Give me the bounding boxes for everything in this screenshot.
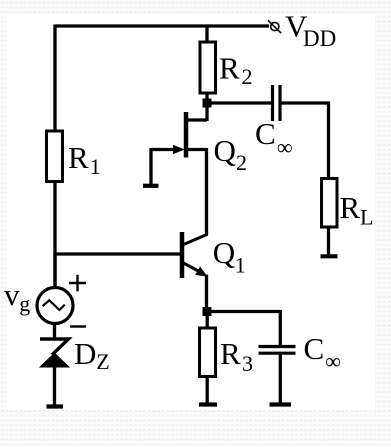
wire top rail [55,24,269,27]
svg-text:C: C [304,331,325,366]
wire Q2 drain bend [188,118,207,121]
wire left rail upper [53,25,56,132]
wire emitter junction right [207,310,281,313]
svg-text:DD: DD [303,26,336,51]
svg-text:2: 2 [236,150,247,175]
minus sign [70,325,86,327]
wire base wire [55,252,181,255]
node junction below R2 [203,99,212,108]
svg-text:1: 1 [235,252,246,277]
capacitor C-inf top (plates) [273,85,281,121]
ground (below R3) [199,402,217,406]
VDD terminal [268,20,281,33]
resistor R3 [200,328,216,377]
wire bottom C-inf to ground [279,354,282,405]
wire Q2 source to Q1 collector [205,148,208,235]
svg-text:C: C [255,116,276,151]
svg-text:Z: Z [96,349,109,374]
svg-text:R: R [220,336,241,371]
wire right rail down to RL [327,102,330,178]
ground (below bottom C-inf) [270,402,292,406]
svg-text:R: R [68,140,89,175]
svg-text:g: g [19,291,30,316]
wire left rail lower [53,181,56,288]
svg-text:R: R [219,51,240,86]
svg-text:1: 1 [90,154,101,179]
ground (below DZ) [47,404,64,408]
wire vg top lead [53,253,56,288]
svg-text:∞: ∞ [277,135,293,160]
ground (Q2 gate) [143,184,159,188]
svg-text:D: D [74,336,96,371]
svg-text:v: v [4,277,20,312]
svg-text:2: 2 [242,64,253,89]
wire R2 top lead [205,26,208,43]
wire junction to C-inf left plate [207,101,271,104]
wire RL bottom lead [327,227,330,256]
transistor Q2 (JFET) [173,112,186,158]
node junction at Q1 emitter [203,307,212,316]
zener diode DZ [39,339,70,368]
wire R2 bottom lead to junction [205,93,208,122]
svg-text:Q: Q [213,235,235,270]
svg-text:L: L [360,205,373,230]
sine wave inside vg [43,300,65,310]
plus sign [69,275,86,292]
wire R3 bottom lead [206,376,209,404]
wire zener to ground [53,367,56,406]
wire Q2 gate drop to ground [149,148,152,185]
source vg (AC source circle) [37,288,73,324]
resistor R2 [200,42,216,93]
wire Q2 gate lead [151,148,176,151]
wire vg bottom lead [53,323,56,340]
svg-text:3: 3 [242,351,253,376]
svg-text:∞: ∞ [325,349,341,374]
ground (below RL) [321,254,338,258]
wire down to bottom C-inf [279,310,282,346]
transistor Q1 (BJT) [182,232,208,278]
capacitor C-inf bottom (plates) [259,347,296,354]
wire Q2 source bend [188,148,207,151]
wire Q1 emitter drop [205,275,208,309]
wire C-inf right plate to right rail [282,101,331,104]
svg-text:Q: Q [214,133,236,168]
svg-text:R: R [340,190,361,225]
resistor R1 [47,131,63,182]
resistor RL [322,179,338,228]
wire emitter junction to R3 [206,315,209,328]
